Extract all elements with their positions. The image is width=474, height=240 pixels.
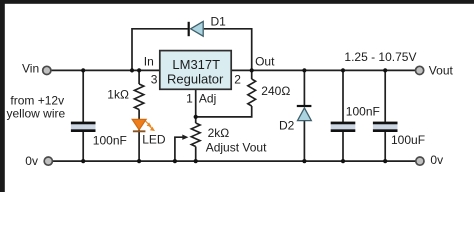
svg-text:Adjust Vout: Adjust Vout xyxy=(206,141,267,155)
svg-text:1: 1 xyxy=(186,91,193,105)
svg-text:100nF: 100nF xyxy=(93,134,127,148)
svg-text:2: 2 xyxy=(234,72,241,86)
svg-text:D2: D2 xyxy=(279,119,295,133)
svg-text:0v: 0v xyxy=(430,153,443,167)
svg-text:Adj: Adj xyxy=(199,91,216,105)
svg-text:240Ω: 240Ω xyxy=(261,84,290,98)
svg-text:LED: LED xyxy=(142,133,166,147)
svg-text:Out: Out xyxy=(255,55,275,69)
svg-text:yellow wire: yellow wire xyxy=(7,107,66,121)
svg-text:0v: 0v xyxy=(25,154,38,168)
svg-text:Regulator: Regulator xyxy=(167,71,224,86)
svg-text:In: In xyxy=(144,55,154,69)
svg-text:Vin: Vin xyxy=(22,61,39,75)
svg-text:3: 3 xyxy=(151,72,158,86)
svg-text:100uF: 100uF xyxy=(391,133,425,147)
svg-text:Vout: Vout xyxy=(429,64,454,78)
svg-text:2kΩ: 2kΩ xyxy=(208,126,230,140)
svg-text:1.25 - 10.75V: 1.25 - 10.75V xyxy=(344,50,416,64)
svg-text:from +12v: from +12v xyxy=(10,93,64,107)
svg-text:D1: D1 xyxy=(211,15,227,29)
svg-text:1kΩ: 1kΩ xyxy=(107,88,129,102)
svg-text:100nF: 100nF xyxy=(346,105,380,119)
svg-text:LM317T: LM317T xyxy=(172,57,220,72)
